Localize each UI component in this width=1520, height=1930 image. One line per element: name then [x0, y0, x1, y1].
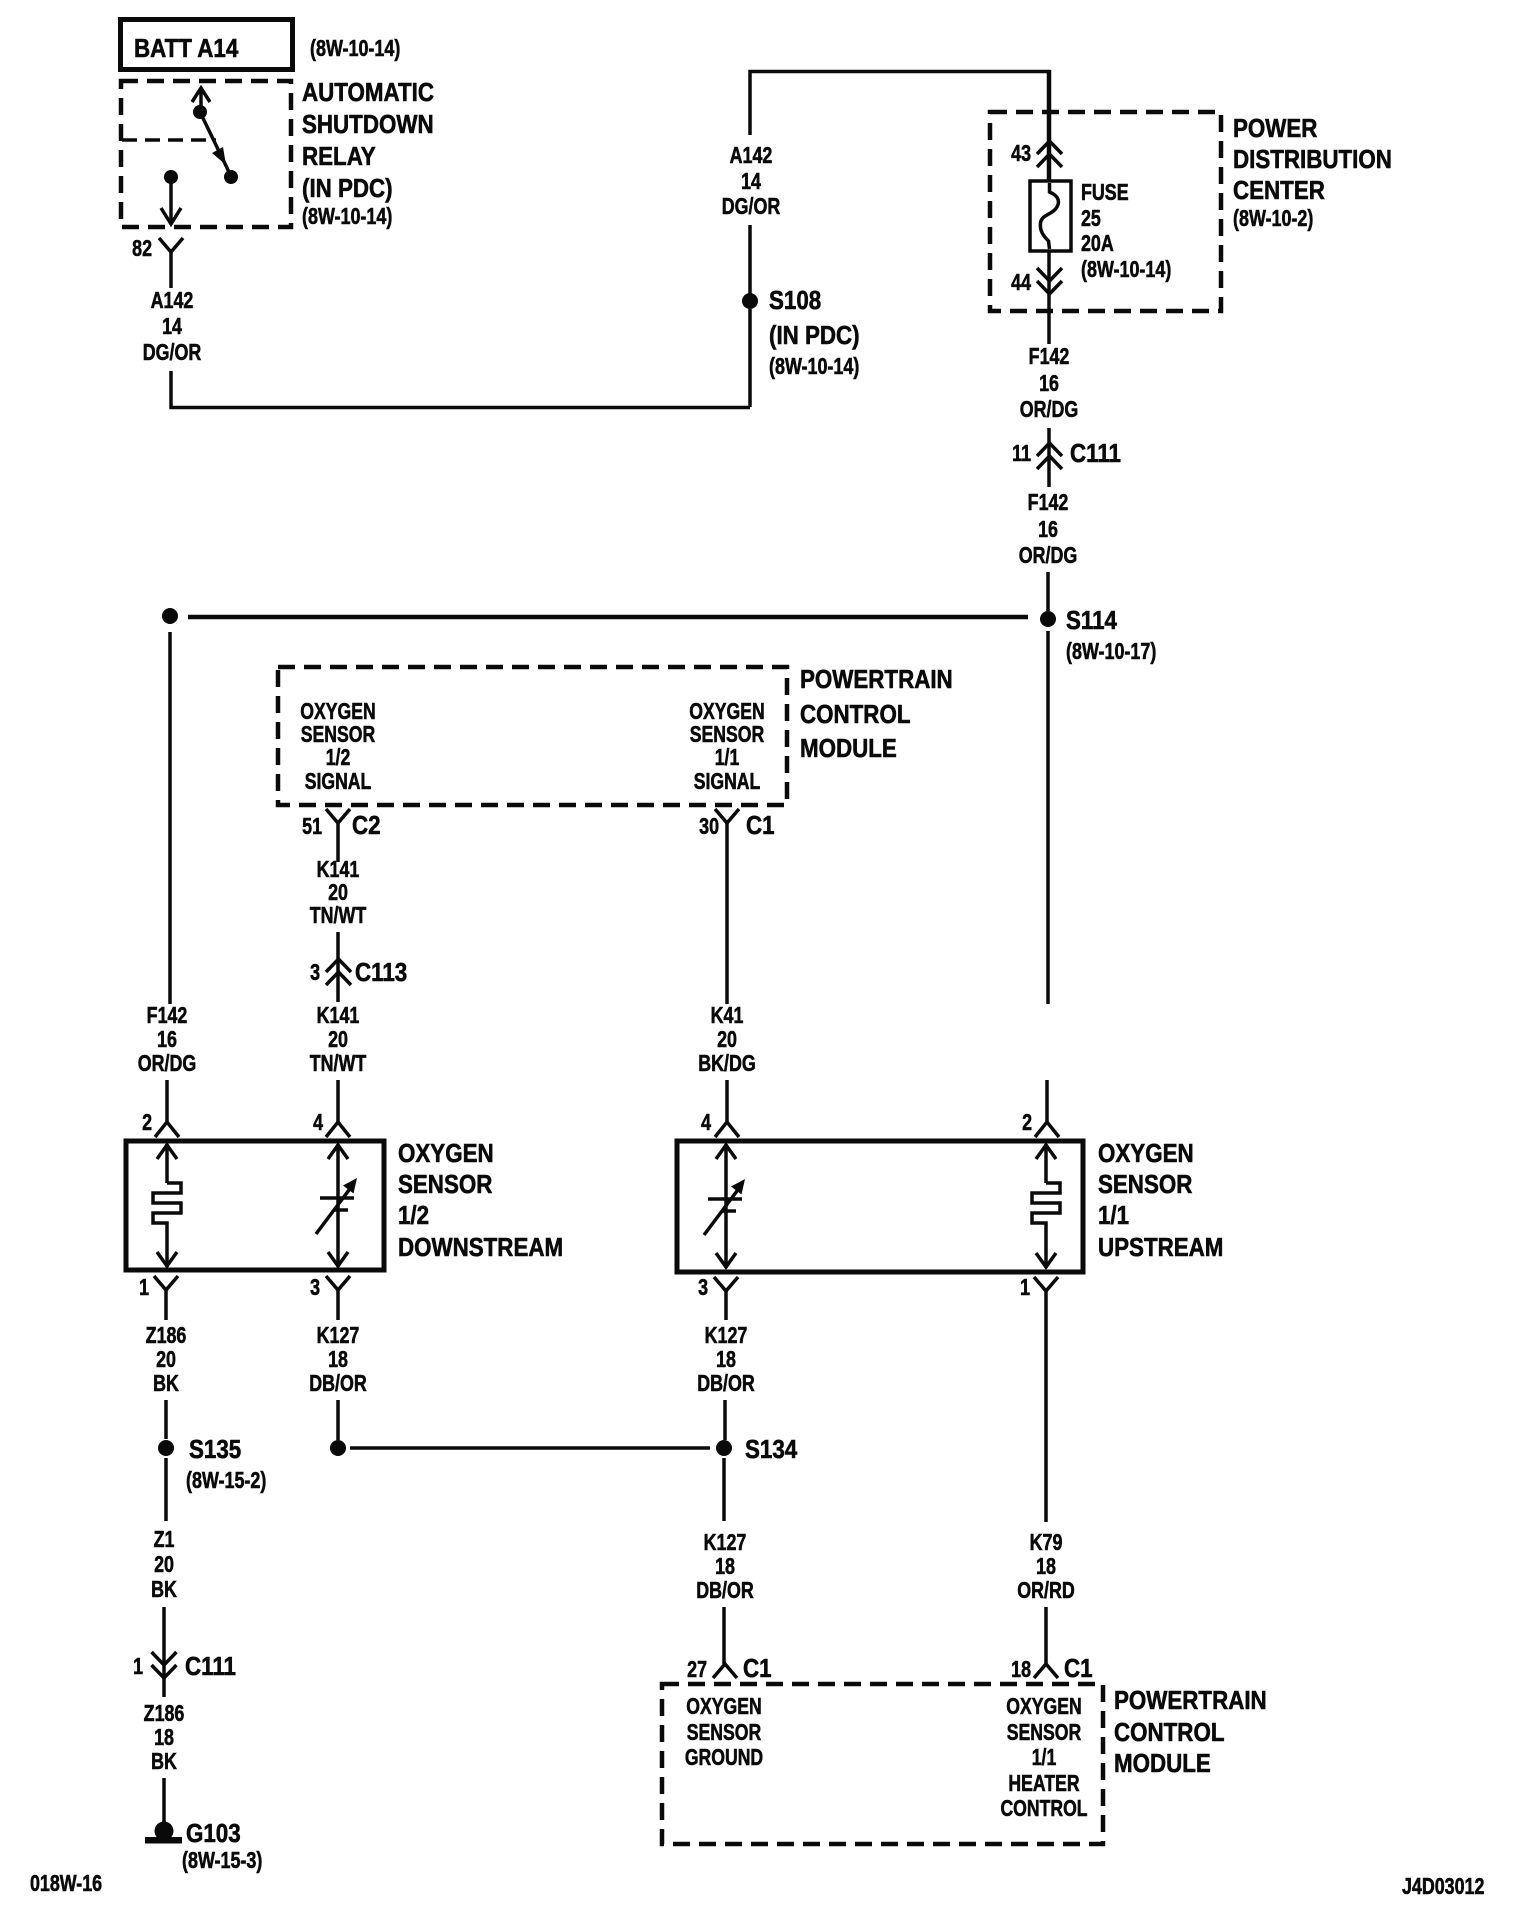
fuse 25 body	[1030, 181, 1071, 251]
svg-text:(IN PDC): (IN PDC)	[302, 174, 393, 203]
svg-text:(8W-15-2): (8W-15-2)	[186, 1468, 266, 1494]
connector at PCM pin 18 C1	[1034, 1664, 1058, 1678]
svg-text:SENSOR: SENSOR	[398, 1170, 492, 1199]
wire from Z186 label down to splice S135	[164, 1400, 168, 1439]
sensor 1/1 variable sense element	[704, 1144, 745, 1268]
svg-text:K141: K141	[317, 1003, 360, 1029]
svg-text:(8W-15-3): (8W-15-3)	[182, 1848, 262, 1874]
svg-text:K127: K127	[705, 1323, 748, 1349]
connector at PCM pin 27 C1	[713, 1664, 737, 1678]
sensor 1/1 name label	[1098, 1139, 1223, 1262]
wire label K127 18 DB/OR (sensor 1/2 pin 3)	[309, 1323, 367, 1397]
svg-text:DG/OR: DG/OR	[143, 340, 202, 366]
svg-text:OR/DG: OR/DG	[1020, 397, 1079, 423]
connector C1 label (pin 27)	[743, 1654, 772, 1683]
svg-text:BK: BK	[153, 1371, 179, 1397]
connector at sensor 1/2 pin 1	[154, 1276, 178, 1320]
PCM name label (bottom)	[1114, 1686, 1267, 1778]
wire down to ground G103	[162, 1778, 166, 1823]
splice S114 dot	[1040, 611, 1056, 627]
pin 18 label	[1011, 1657, 1031, 1683]
relay upper contact arrow to battery	[192, 88, 210, 112]
connector C1 label (pin 18)	[1064, 1654, 1093, 1683]
PCM name label (top)	[800, 665, 953, 763]
svg-text:44: 44	[1011, 270, 1031, 296]
pin 51 label	[302, 814, 322, 840]
pin 11 label	[1012, 441, 1031, 467]
svg-text:MODULE: MODULE	[800, 734, 897, 763]
wire below splice S135	[164, 1458, 168, 1521]
S114 horizontal wire run	[188, 615, 1028, 620]
svg-text:POWERTRAIN: POWERTRAIN	[1114, 1686, 1267, 1715]
svg-text:MODULE: MODULE	[1114, 1749, 1211, 1778]
svg-text:OR/DG: OR/DG	[1019, 543, 1078, 569]
automatic shutdown relay dashed box	[121, 81, 291, 227]
svg-text:SIGNAL: SIGNAL	[305, 769, 372, 795]
svg-text:27: 27	[687, 1657, 707, 1683]
svg-text:4: 4	[701, 1110, 711, 1136]
svg-text:1/1: 1/1	[715, 745, 740, 771]
svg-text:K79: K79	[1030, 1530, 1063, 1556]
PCM pin function label OXYGEN SENSOR GROUND	[685, 1694, 763, 1771]
wire label K127 18 DB/OR (sensor 1/1 pin 3)	[697, 1323, 755, 1397]
wire and connector into sensor 1/2 pin 4	[326, 1080, 350, 1137]
sheet number 018W-16	[30, 1871, 102, 1897]
svg-text:1: 1	[133, 1654, 143, 1680]
S134 branch node dot	[330, 1440, 346, 1456]
pin 82 label	[132, 236, 152, 262]
svg-text:1/1: 1/1	[1098, 1201, 1129, 1230]
pin 3 label (sensor 1/1)	[698, 1275, 708, 1301]
ground G103 symbol	[145, 1822, 182, 1844]
pin 3 label at C113	[310, 960, 320, 986]
wire through connector C111 pin 1	[162, 1607, 166, 1697]
svg-text:FUSE: FUSE	[1081, 180, 1129, 206]
svg-text:(IN PDC): (IN PDC)	[769, 321, 860, 350]
oxygen sensor 1/1 upstream box	[677, 1141, 1083, 1272]
connector symbol C1 pin 30	[715, 809, 739, 823]
wire label Z1 20 BK	[151, 1527, 177, 1603]
relay output terminal dot (left)	[164, 170, 178, 184]
connector at sensor 1/1 pin 3	[714, 1277, 738, 1320]
svg-text:F142: F142	[1029, 344, 1070, 370]
svg-text:POWER: POWER	[1233, 114, 1317, 143]
svg-text:14: 14	[741, 169, 761, 195]
PCM pin function label OXYGEN SENSOR 1/1 SIGNAL	[689, 699, 764, 795]
connector chevrons at pin 43	[1037, 141, 1062, 167]
svg-text:DB/OR: DB/OR	[309, 1371, 367, 1397]
splice S134 label	[745, 1435, 798, 1464]
sensor 1/2 name label	[398, 1139, 563, 1262]
svg-text:HEATER: HEATER	[1008, 1771, 1079, 1797]
connector C111 chevrons (pin 11)	[1037, 443, 1062, 469]
svg-text:4: 4	[313, 1110, 323, 1136]
connector at sensor 1/2 pin 3	[326, 1276, 350, 1320]
wire out of PDC pin 44	[1047, 251, 1051, 344]
connector C113 label	[355, 958, 407, 987]
wire label Z186 18 BK	[144, 1701, 185, 1775]
svg-text:C1: C1	[1064, 1654, 1093, 1683]
horizontal wire run to splice S108 branch	[170, 406, 751, 410]
wire from label down to splice S114	[1046, 572, 1050, 611]
pin 4 label (sensor 1/1)	[701, 1110, 711, 1136]
wire down from label to horizontal run	[169, 371, 173, 409]
svg-text:OXYGEN: OXYGEN	[1006, 1694, 1081, 1720]
wire from S108 down to horizontal run	[748, 309, 752, 407]
svg-text:BK: BK	[151, 1749, 177, 1775]
svg-text:(8W-10-14): (8W-10-14)	[302, 204, 392, 230]
svg-text:A142: A142	[730, 143, 773, 169]
wire label K41 20 BK/DG	[698, 1003, 756, 1077]
svg-text:S135: S135	[189, 1435, 241, 1464]
wire from sensor 1/1 K127 label down to splice S134	[723, 1400, 727, 1440]
connector C2 label	[352, 811, 381, 840]
svg-text:20: 20	[156, 1347, 176, 1373]
svg-text:K127: K127	[704, 1530, 747, 1556]
splice S108 label	[769, 286, 860, 379]
relay internal dashed divider	[122, 138, 216, 142]
svg-text:1: 1	[139, 1275, 149, 1301]
svg-text:G103: G103	[186, 1819, 241, 1848]
sensor 1/2 heater element	[153, 1144, 181, 1267]
connector C113 chevrons	[326, 959, 351, 985]
svg-text:1/1: 1/1	[1032, 1745, 1057, 1771]
svg-text:TN/WT: TN/WT	[310, 903, 367, 929]
svg-text:S114: S114	[1066, 606, 1117, 635]
wire from label down to splice S108	[748, 225, 752, 295]
svg-text:OR/DG: OR/DG	[138, 1051, 197, 1077]
svg-text:(8W-10-14): (8W-10-14)	[769, 354, 859, 380]
connector at sensor 1/1 pin 1	[1034, 1277, 1058, 1522]
svg-text:Z1: Z1	[154, 1527, 175, 1553]
top horizontal wire run	[749, 70, 1051, 74]
svg-text:Z186: Z186	[144, 1701, 185, 1727]
wire label F142 16 OR/DG (lower)	[1019, 490, 1078, 569]
svg-text:1/2: 1/2	[326, 745, 351, 771]
PDC name label	[1233, 114, 1392, 231]
svg-text:TN/WT: TN/WT	[310, 1051, 367, 1077]
connector C111 chevrons (pin 1)	[152, 1652, 177, 1678]
pin 4 label (sensor 1/2)	[313, 1110, 323, 1136]
svg-text:CONTROL: CONTROL	[1000, 1796, 1087, 1822]
relay name label AUTOMATIC SHUTDOWN RELAY (IN PDC)	[302, 78, 434, 229]
sensor 1/1 heater element	[1032, 1144, 1060, 1268]
splice S108 dot	[742, 293, 758, 309]
svg-text:(8W-10-14): (8W-10-14)	[310, 36, 400, 62]
svg-text:(8W-10-17): (8W-10-17)	[1066, 639, 1156, 665]
svg-text:2: 2	[1022, 1110, 1032, 1136]
svg-text:20: 20	[154, 1552, 174, 1578]
svg-text:DB/OR: DB/OR	[697, 1371, 755, 1397]
svg-text:18: 18	[328, 1347, 348, 1373]
splice S114 label	[1066, 606, 1156, 664]
svg-text:18: 18	[1036, 1554, 1056, 1580]
wire down from top run (middle)	[748, 70, 752, 135]
wire label Z186 20 BK	[146, 1323, 187, 1397]
PCM pin function label OXYGEN SENSOR 1/1 HEATER CONTROL	[1000, 1694, 1087, 1822]
svg-text:C1: C1	[746, 811, 775, 840]
svg-text:OXYGEN: OXYGEN	[398, 1139, 494, 1168]
svg-text:1: 1	[1020, 1275, 1030, 1301]
relay output arrow to pin 82	[161, 177, 181, 224]
power distribution center dashed box	[990, 112, 1221, 311]
wire and connector into sensor 1/2 pin 2	[155, 1080, 179, 1137]
relay armature pivot dot	[193, 105, 207, 119]
sensor 1/2 variable sense element	[316, 1144, 357, 1267]
svg-text:3: 3	[698, 1275, 708, 1301]
svg-text:Z186: Z186	[146, 1323, 187, 1349]
svg-text:2: 2	[142, 1110, 152, 1136]
connector C1 label	[746, 811, 775, 840]
svg-text:C2: C2	[352, 811, 381, 840]
svg-text:16: 16	[1038, 517, 1058, 543]
powertrain control module dashed box (top)	[278, 667, 787, 805]
pin 1 label (sensor 1/1)	[1020, 1275, 1030, 1301]
svg-text:CONTROL: CONTROL	[1114, 1718, 1225, 1747]
wire from C2 down	[336, 823, 340, 862]
svg-text:K127: K127	[317, 1323, 360, 1349]
svg-text:OXYGEN: OXYGEN	[686, 1694, 761, 1720]
svg-text:14: 14	[162, 314, 182, 340]
svg-text:RELAY: RELAY	[302, 142, 376, 171]
svg-text:DOWNSTREAM: DOWNSTREAM	[398, 1233, 563, 1262]
S134 horizontal wire run	[350, 1446, 710, 1450]
wire below splice S134	[722, 1458, 726, 1521]
svg-text:AUTOMATIC: AUTOMATIC	[302, 78, 434, 107]
wire through connector C111 pin 11	[1047, 428, 1051, 487]
wire from K127 down to PCM pin 27	[722, 1607, 726, 1664]
wire from S114 down (right column)	[1046, 631, 1050, 1004]
svg-text:DISTRIBUTION: DISTRIBUTION	[1233, 145, 1392, 174]
battery feed box BATT A14	[121, 20, 293, 70]
wire from C1 pin 30 down (long)	[725, 823, 729, 1004]
svg-text:DG/OR: DG/OR	[722, 194, 781, 220]
svg-text:18: 18	[1011, 1657, 1031, 1683]
pin 3 label (sensor 1/2)	[310, 1275, 320, 1301]
connector C111 label (bottom)	[185, 1652, 236, 1681]
svg-text:CONTROL: CONTROL	[800, 700, 911, 729]
wire from K79 down to PCM pin 18	[1044, 1607, 1048, 1666]
svg-text:25: 25	[1081, 206, 1101, 232]
svg-text:3: 3	[310, 960, 320, 986]
splice S134 dot	[716, 1440, 732, 1456]
svg-text:51: 51	[302, 814, 322, 840]
svg-text:82: 82	[132, 236, 152, 262]
wire label F142 16 OR/DG (upper)	[1020, 344, 1079, 423]
wire label K79 18 OR/RD	[1017, 1530, 1075, 1604]
drawing number J4D03012	[1402, 1874, 1484, 1900]
pin 44 label	[1011, 270, 1031, 296]
relay fixed contact dot (right)	[224, 170, 238, 184]
pin 43 label	[1011, 141, 1031, 167]
wire label A142 14 DG/OR (left)	[143, 288, 202, 366]
svg-text:OXYGEN: OXYGEN	[1098, 1139, 1194, 1168]
connector C111 label	[1070, 439, 1121, 468]
svg-text:DB/OR: DB/OR	[696, 1578, 754, 1604]
svg-text:43: 43	[1011, 141, 1031, 167]
wire through connector C113	[336, 932, 340, 1002]
svg-text:J4D03012: J4D03012	[1402, 1874, 1484, 1900]
pin 30 label	[699, 814, 719, 840]
svg-text:K41: K41	[711, 1003, 744, 1029]
svg-text:C111: C111	[1070, 439, 1121, 468]
wire into PDC through pin 43	[1047, 70, 1052, 182]
wire label K127 18 DB/OR (below S134)	[696, 1530, 754, 1604]
svg-text:OR/RD: OR/RD	[1017, 1578, 1075, 1604]
pin 2 label (sensor 1/2)	[142, 1110, 152, 1136]
svg-text:11: 11	[1012, 441, 1031, 467]
pin 1 label (sensor 1/2)	[139, 1275, 149, 1301]
svg-text:BK: BK	[151, 1577, 177, 1603]
svg-text:F142: F142	[147, 1003, 188, 1029]
svg-text:3: 3	[310, 1275, 320, 1301]
svg-text:20: 20	[717, 1027, 737, 1053]
svg-text:SENSOR: SENSOR	[687, 1720, 761, 1746]
PCM pin function label OXYGEN SENSOR 1/2 SIGNAL	[300, 699, 375, 795]
svg-text:CENTER: CENTER	[1233, 176, 1325, 205]
svg-text:UPSTREAM: UPSTREAM	[1098, 1233, 1223, 1262]
svg-text:20: 20	[328, 1027, 348, 1053]
connector chevrons at pin 44	[1037, 268, 1062, 294]
splice S135 dot	[158, 1440, 174, 1456]
splice S135 label	[186, 1435, 266, 1493]
node dot at left end of S114 run	[162, 608, 178, 624]
svg-text:018W-16: 018W-16	[30, 1871, 102, 1897]
wire label F142 16 OR/DG (left column)	[138, 1003, 197, 1077]
connector symbol at relay pin 82	[159, 238, 183, 252]
svg-text:(8W-10-2): (8W-10-2)	[1233, 206, 1313, 232]
wire and connector into sensor 1/1 pin 2	[1035, 1080, 1059, 1137]
svg-text:SIGNAL: SIGNAL	[694, 769, 761, 795]
wire label K141 20 TN/WT (lower)	[310, 1003, 367, 1077]
powertrain control module dashed box (bottom)	[662, 1684, 1103, 1844]
fuse label FUSE 25 20A	[1081, 180, 1171, 283]
svg-text:SENSOR: SENSOR	[1098, 1170, 1192, 1199]
wire from left node down	[168, 632, 172, 1004]
reference (8W-10-14) beside BATT A14	[310, 36, 400, 62]
svg-text:16: 16	[1039, 371, 1059, 397]
svg-text:SENSOR: SENSOR	[1007, 1720, 1081, 1746]
ground G103 label	[182, 1819, 262, 1873]
wire label A142 14 DG/OR (middle)	[722, 143, 781, 220]
wire from pin 82 down	[169, 252, 173, 288]
svg-text:A142: A142	[151, 288, 194, 314]
svg-text:POWERTRAIN: POWERTRAIN	[800, 665, 953, 694]
relay movable contact arm with arrowhead	[200, 112, 229, 172]
svg-text:GROUND: GROUND	[685, 1745, 763, 1771]
svg-text:18: 18	[716, 1347, 736, 1373]
svg-text:BK/DG: BK/DG	[698, 1051, 756, 1077]
svg-text:F142: F142	[1028, 490, 1069, 516]
wire from K127 label down to S134 branch dot	[336, 1400, 340, 1440]
pin 1 label at C111	[133, 1654, 143, 1680]
svg-text:SHUTDOWN: SHUTDOWN	[302, 110, 434, 139]
svg-text:C1: C1	[743, 1654, 772, 1683]
pin 27 label	[687, 1657, 707, 1683]
pin 2 label (sensor 1/1)	[1022, 1110, 1032, 1136]
wire label K141 20 TN/WT (upper)	[310, 857, 367, 929]
svg-text:C113: C113	[355, 958, 407, 987]
svg-text:C111: C111	[185, 1652, 236, 1681]
svg-text:BATT A14: BATT A14	[134, 34, 239, 63]
connector symbol C2 pin 51	[326, 809, 350, 823]
svg-text:S134: S134	[745, 1435, 798, 1464]
svg-text:30: 30	[699, 814, 719, 840]
svg-text:20A: 20A	[1081, 231, 1114, 257]
svg-text:16: 16	[157, 1027, 177, 1053]
svg-text:(8W-10-14): (8W-10-14)	[1081, 257, 1171, 283]
svg-text:S108: S108	[769, 286, 821, 315]
wire and connector into sensor 1/1 pin 4	[715, 1080, 739, 1137]
oxygen sensor 1/2 downstream box	[126, 1141, 384, 1270]
svg-text:18: 18	[715, 1554, 735, 1580]
svg-text:1/2: 1/2	[398, 1201, 429, 1230]
svg-text:18: 18	[154, 1725, 174, 1751]
